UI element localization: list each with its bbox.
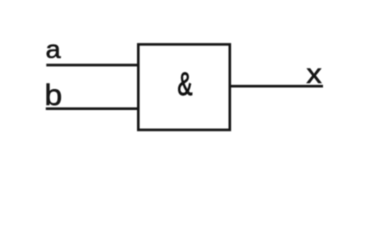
svg-text:a: a: [46, 35, 62, 64]
wire input a: [46, 64, 138, 67]
AND gate U1 (IEC rectangle): [138, 44, 230, 129]
wire input b: [46, 107, 139, 110]
svg-text:b: b: [45, 78, 63, 112]
wire output x: [230, 85, 324, 88]
svg-text:&: &: [178, 66, 193, 102]
svg-text:x: x: [306, 58, 322, 89]
